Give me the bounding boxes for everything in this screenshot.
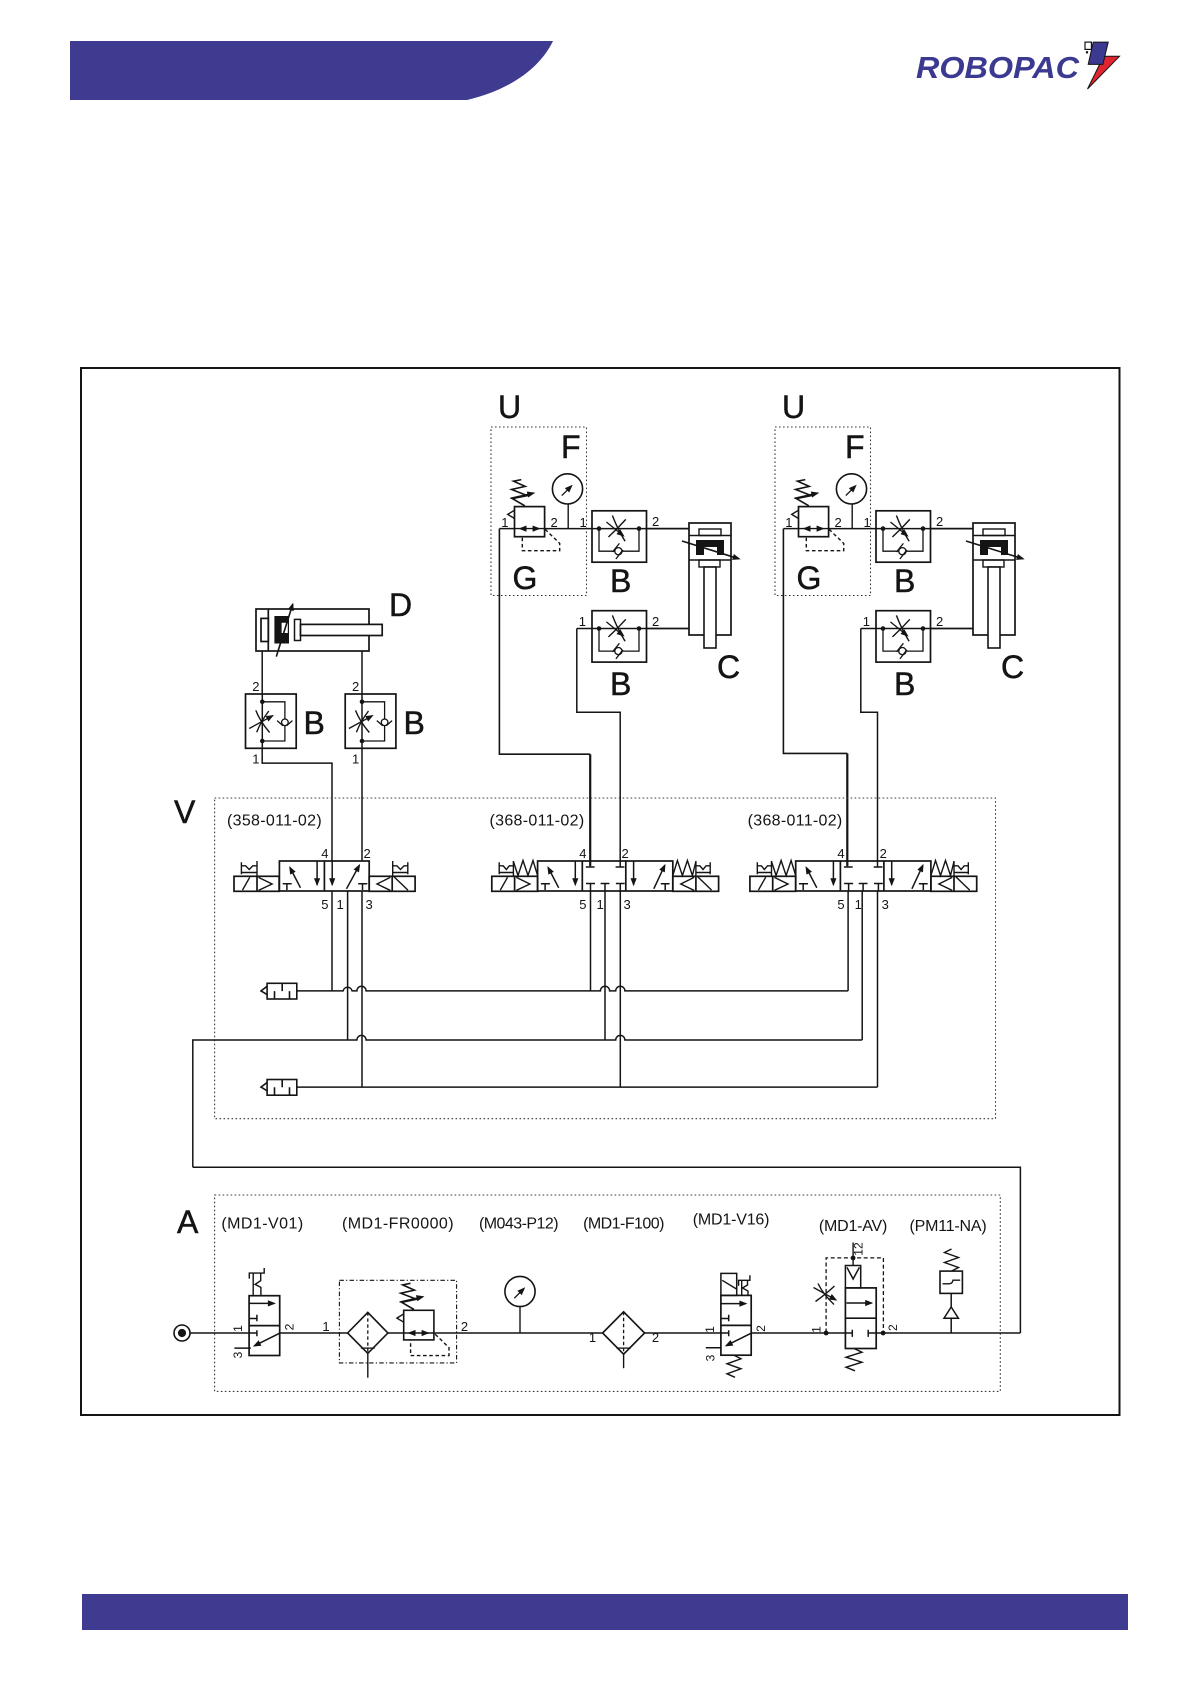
valve3 368-011-02 instance: [748, 813, 977, 913]
filter-regulator MD1-FR0000: [339, 1280, 456, 1377]
valve 368-011-02 (5/3 closed centre): [490, 813, 719, 913]
cylinder C: [689, 523, 731, 648]
svg-text:A: A: [177, 1204, 199, 1240]
svg-text:U: U: [498, 389, 521, 425]
pressure gauge F: [552, 474, 582, 504]
node: AV outlet junction: [881, 1331, 886, 1336]
svg-text:12: 12: [852, 1242, 866, 1256]
wire: FR to F100: [434, 1332, 603, 1334]
gauge stem: [519, 1307, 521, 1333]
wire: G inlet: [499, 528, 514, 530]
svg-text:2: 2: [352, 679, 359, 694]
air supply source: [174, 1325, 190, 1341]
left return spring: [513, 861, 537, 876]
dotted enclosure V: [215, 798, 996, 1119]
svg-text:1: 1: [810, 1326, 824, 1333]
dash-dot enclosure: [339, 1280, 456, 1363]
manual lever actuator: [249, 1268, 264, 1296]
svg-text:1: 1: [252, 752, 259, 767]
svg-text:3: 3: [231, 1351, 245, 1358]
wire valve2 port3: [619, 891, 621, 1087]
wire: G2 port1 drop to valve3 port 4: [783, 529, 847, 754]
hand valve MD1-V01: [234, 1268, 279, 1356]
svg-text:B: B: [404, 705, 425, 741]
svg-text:(MD1-V01): (MD1-V01): [221, 1216, 303, 1233]
svg-text:B: B: [304, 705, 325, 741]
wire: right B port 1 to valve (358) port 2: [361, 748, 363, 861]
wire: V01 to FR unit: [280, 1332, 348, 1334]
exhaust rail 1: [297, 986, 848, 991]
wire: left B port 1 to valve (358) port 4: [262, 748, 332, 861]
gauge stem: [567, 504, 569, 529]
pressure gauge M043-P12: [505, 1276, 535, 1306]
svg-text:4: 4: [579, 846, 586, 861]
main 2/2 valve: [845, 1288, 876, 1349]
svg-text:1: 1: [322, 1319, 329, 1334]
dotted enclosure A: [215, 1195, 1001, 1391]
svg-text:2: 2: [886, 1324, 900, 1331]
wire: source to MD1-V01: [190, 1332, 249, 1334]
cylinder D: [256, 609, 382, 651]
header band: [70, 41, 553, 100]
svg-text:5: 5: [321, 897, 328, 912]
wire valve1 port3: [361, 891, 363, 1087]
svg-text:2: 2: [754, 1325, 768, 1332]
solenoid valve MD1-V16: [706, 1273, 751, 1377]
cylinder D cushion-adjust arrow: [276, 604, 292, 656]
svg-text:1: 1: [352, 752, 359, 767]
wire: cylinder D left port down to B valve: [261, 651, 263, 694]
svg-text:1: 1: [703, 1326, 717, 1333]
svg-text:2: 2: [461, 1319, 468, 1334]
left detent symbol: [499, 861, 513, 876]
svg-text:2: 2: [622, 846, 629, 861]
wire valve2 port1: [604, 891, 606, 1040]
wire valve2 port5: [590, 891, 592, 991]
wire: cylinder D right port down to B valve: [361, 651, 363, 694]
pilot check valve: [845, 1266, 860, 1288]
svg-text:G: G: [513, 560, 538, 596]
wire: AV to output riser: [876, 1332, 1020, 1334]
footer band: [82, 1594, 1128, 1630]
svg-text:B: B: [610, 666, 631, 702]
filter MD1-F100: [603, 1312, 645, 1368]
wire valve1 port1: [347, 891, 349, 1040]
supply rail 2 with riser from A unit: [193, 1035, 862, 1167]
svg-text:3: 3: [366, 897, 373, 912]
wire: F100 to V16: [645, 1332, 721, 1334]
right return spring: [673, 861, 696, 876]
svg-text:(MD1-F100): (MD1-F100): [583, 1216, 664, 1233]
svg-text:C: C: [717, 649, 740, 685]
svg-text:1: 1: [589, 1330, 596, 1345]
right detent symbol: [393, 861, 408, 876]
svg-text:(MD1-FR0000): (MD1-FR0000): [342, 1216, 454, 1233]
right pilot actuator: [369, 876, 415, 891]
svg-text:(M043-P12): (M043-P12): [479, 1216, 558, 1233]
connecting line filter to regulator: [388, 1332, 404, 1334]
svg-text:2: 2: [252, 679, 259, 694]
wire: B1 lower port1 drop to valve2 port 2: [577, 629, 620, 867]
exhaust rail 3: [297, 1086, 878, 1088]
throttle on pilot edge: [816, 1284, 835, 1305]
wire: V16 to AV: [751, 1332, 845, 1334]
valve 358-011-02 (5/2 double pilot): [234, 861, 415, 891]
svg-text:2: 2: [551, 515, 558, 530]
svg-text:(PM11-NA): (PM11-NA): [909, 1218, 986, 1235]
wire: lower B port 1 stub: [577, 628, 592, 630]
flow-control valve B (lower): [592, 611, 647, 662]
exhaust silencer (rail 3): [261, 1080, 297, 1096]
ROBOPAC logo mark: [1085, 42, 1120, 89]
right position box internals: [331, 861, 333, 885]
flow-control valve B (upper): [592, 511, 647, 562]
svg-text:B: B: [610, 563, 631, 599]
dotted enclosure U: [491, 427, 587, 596]
left position box internals: [541, 884, 550, 890]
filter element: [348, 1312, 388, 1353]
supply line from A unit output: [193, 1167, 1021, 1333]
wire: G outlet to B valve: [545, 528, 592, 530]
right solenoid actuator: [673, 876, 719, 891]
node: AV inlet junction: [824, 1331, 829, 1336]
svg-text:1: 1: [597, 897, 604, 912]
svg-text:1: 1: [231, 1325, 245, 1332]
wire: G1 port1 drop to valve2 port 4: [499, 529, 590, 755]
schematic outer frame: [81, 368, 1120, 1415]
dashed enclosure: [826, 1258, 883, 1333]
wire: B2 lower port1 drop to valve3 port 2: [861, 629, 878, 867]
wire valve3 port1: [861, 891, 863, 1040]
manual override: [739, 1275, 750, 1295]
right detent symbol: [696, 861, 710, 876]
svg-text:1: 1: [580, 515, 587, 530]
svg-text:3: 3: [624, 897, 631, 912]
exhaust silencer (rail 1): [261, 983, 297, 999]
left detent symbol: [241, 861, 257, 876]
wire valve1 port5: [331, 891, 333, 991]
svg-text:(358-011-02): (358-011-02): [227, 813, 322, 830]
flow-control valve B (right of D): [345, 694, 396, 748]
wire: lower B to cylinder C bottom port: [647, 628, 690, 630]
right position box internals: [633, 861, 635, 885]
svg-text:(MD1-V16): (MD1-V16): [693, 1212, 769, 1229]
svg-text:2: 2: [652, 614, 659, 629]
cylinder C cushion-adjust arrow: [682, 541, 739, 559]
pilot stub 12: [852, 1243, 854, 1266]
left position box internals: [283, 884, 292, 890]
svg-text:1: 1: [501, 515, 508, 530]
svg-text:F: F: [561, 429, 581, 465]
svg-text:1: 1: [337, 897, 344, 912]
pressure switch PM11-NA: [940, 1249, 962, 1333]
svg-text:(368-011-02): (368-011-02): [490, 813, 585, 830]
wire: B valve to cylinder C top port: [647, 528, 690, 530]
pressure regulator G: [508, 480, 560, 551]
soft-start valve MD1-AV: [814, 1243, 884, 1371]
svg-text:1: 1: [579, 614, 586, 629]
svg-text:(MD1-AV): (MD1-AV): [819, 1218, 887, 1235]
solenoid actuator: [721, 1273, 737, 1295]
svg-text:3: 3: [704, 1354, 718, 1361]
svg-text:2: 2: [283, 1323, 297, 1330]
svg-text:V: V: [174, 794, 196, 830]
return spring: [727, 1355, 741, 1377]
svg-text:4: 4: [321, 846, 328, 861]
left solenoid actuator: [492, 876, 538, 891]
left pilot actuator: [234, 876, 279, 891]
U group right instance: [775, 389, 1024, 702]
wire valve3 port3: [877, 891, 879, 1087]
flow-control valve B (left of D): [246, 694, 297, 748]
svg-text:2: 2: [364, 846, 371, 861]
svg-text:ROBOPAC: ROBOPAC: [916, 50, 1080, 85]
svg-text:5: 5: [579, 897, 586, 912]
return spring: [846, 1349, 862, 1371]
regulator element: [404, 1310, 434, 1340]
centre position blocked ports: [586, 866, 625, 868]
svg-text:2: 2: [652, 514, 659, 529]
svg-text:D: D: [389, 587, 412, 623]
wire valve3 port5: [847, 891, 849, 991]
